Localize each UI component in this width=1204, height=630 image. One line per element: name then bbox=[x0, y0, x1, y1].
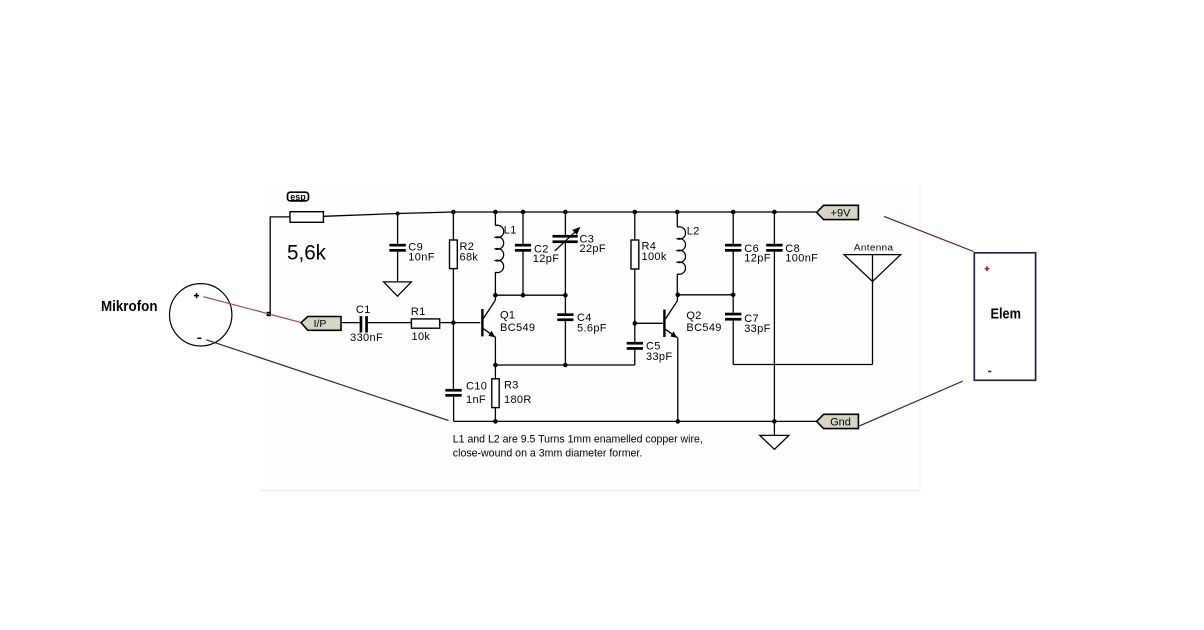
junction Q1 collector node at C2 bbox=[521, 293, 526, 298]
wire: L1 bottom to tank node row bbox=[494, 272, 496, 295]
svg-text:330nF: 330nF bbox=[350, 332, 383, 344]
wire: C4 column top bbox=[564, 295, 566, 313]
junction ground rail at Q2 emitter bbox=[676, 419, 681, 424]
svg-text:12pF: 12pF bbox=[744, 253, 770, 265]
wire: antenna down lead bbox=[872, 255, 874, 365]
junction Q2 collector node at C6/C7 bbox=[731, 293, 736, 298]
svg-text:L1 and L2 are 9.5 Turns 1mm en: L1 and L2 are 9.5 Turns 1mm enamelled co… bbox=[453, 433, 703, 445]
svg-text:L1: L1 bbox=[504, 225, 517, 237]
inductor L2 bbox=[677, 227, 685, 274]
capacitor C3 22pF variable bbox=[553, 235, 578, 243]
wire: C6 column top bbox=[732, 212, 734, 244]
junction on +9V rail at C8 bbox=[772, 210, 777, 215]
svg-text:12pF: 12pF bbox=[533, 253, 559, 265]
svg-text:68k: 68k bbox=[460, 252, 479, 264]
wire: stage 2 node row bbox=[678, 294, 733, 296]
wire: R2 column rail to box bbox=[452, 212, 454, 240]
svg-text:33pF: 33pF bbox=[646, 351, 672, 363]
battery Elem bbox=[974, 253, 1035, 380]
wire: R3 bottom to rail bbox=[494, 408, 496, 422]
wire: C6 bottom to node row bbox=[732, 252, 734, 295]
svg-text:Q1: Q1 bbox=[500, 310, 515, 322]
wire: L2 bottom to node row bbox=[676, 274, 678, 295]
wire: C8 column top bbox=[773, 212, 775, 244]
capacitor C10 1nF bbox=[445, 389, 461, 397]
microphone body bbox=[170, 284, 232, 346]
junction on +9V rail at L1 bbox=[493, 210, 498, 215]
svg-text:close-wound on a 3mm diameter: close-wound on a 3mm diameter former. bbox=[453, 447, 643, 459]
wire: C5 bottom to emitter row bbox=[634, 348, 636, 365]
capacitor C7 33pF bbox=[725, 313, 741, 321]
junction on +9V rail at R2 bbox=[451, 210, 456, 215]
wire: L2 column top bbox=[676, 212, 678, 227]
wire: R4 box to Q2 base node and C5 bbox=[634, 269, 636, 342]
wire: C10 bottom to ground rail bbox=[453, 397, 455, 422]
transistor Q1 BC549 bbox=[481, 295, 495, 365]
wire: tank node row stage 1 bbox=[495, 294, 565, 296]
svg-text:10k: 10k bbox=[412, 331, 431, 343]
wire: R3 column bbox=[494, 365, 496, 379]
capacitor C9 10nF bbox=[389, 244, 405, 252]
wire: mic bias vertical from 5,6k resistor down to input node bbox=[270, 217, 290, 314]
wire: C9 stem from rail bbox=[397, 214, 399, 244]
inductor L1 bbox=[495, 225, 503, 272]
junction Q1 base node bbox=[451, 320, 456, 325]
wire: I/P tag to C1 bbox=[341, 322, 360, 324]
junction ground rail at R3 bbox=[493, 419, 498, 424]
wire: R2 box to base node, down to C10 bbox=[452, 269, 454, 389]
junction emitter row at C4 bbox=[563, 363, 568, 368]
wire: antenna row bbox=[733, 364, 872, 366]
wire: Q2 base bbox=[635, 322, 663, 324]
blue wire: mic to ground rail bbox=[206, 340, 448, 421]
capacitor C2 12pF bbox=[515, 244, 531, 252]
wire: C3 column top bbox=[564, 212, 566, 235]
junction on +9V rail at C3 bbox=[563, 210, 568, 215]
capacitor C1 330nF (vertical plates) bbox=[360, 316, 368, 332]
transistor Q2 BC549 bbox=[663, 295, 678, 422]
red wire: +9V to battery plus bbox=[884, 216, 974, 251]
ground symbol below rail bbox=[760, 435, 789, 449]
junction on +9V rail at R4 bbox=[633, 210, 638, 215]
junction Q2 collector node at L2 bbox=[676, 293, 681, 298]
capacitor C5 33pF bbox=[627, 342, 643, 350]
trimmer arrow of C3 bbox=[555, 228, 580, 251]
tag +9V bbox=[817, 205, 859, 219]
note text bbox=[453, 433, 703, 459]
svg-text:Gnd: Gnd bbox=[830, 417, 851, 429]
wire: C7 column top bbox=[732, 295, 734, 313]
node: mic input junction bbox=[267, 312, 271, 316]
scan background tint bbox=[261, 185, 920, 491]
junction Q1 collector node at L1 bbox=[493, 293, 498, 298]
wire: R1 to base node bbox=[440, 322, 454, 324]
svg-text:180R: 180R bbox=[504, 394, 532, 406]
svg-text:1nF: 1nF bbox=[466, 394, 486, 406]
svg-text:L2: L2 bbox=[687, 226, 700, 238]
svg-text:5,6k: 5,6k bbox=[287, 242, 326, 265]
wire: L1 column top bbox=[494, 212, 496, 226]
junction on +9V rail at L2 bbox=[675, 210, 680, 215]
svg-text:Elem: Elem bbox=[991, 307, 1022, 323]
svg-text:100k: 100k bbox=[642, 251, 667, 263]
wire: C9 to ground symbol bbox=[397, 252, 399, 282]
tag I/P bbox=[301, 317, 341, 331]
wire: top +9V rail bbox=[453, 211, 816, 213]
svg-text:100nF: 100nF bbox=[785, 253, 818, 265]
svg-text:C10: C10 bbox=[466, 381, 487, 393]
blue wire: Gnd to battery minus bbox=[859, 381, 963, 426]
svg-text:+9V: +9V bbox=[831, 208, 852, 220]
esp logo bbox=[288, 192, 309, 202]
mic plus bbox=[194, 293, 199, 298]
resistor R4 100k bbox=[631, 240, 639, 269]
junction on +9V rail at C2 bbox=[521, 210, 526, 215]
wire: bottom ground rail bbox=[454, 420, 817, 422]
junction Q1 collector node at C3/C4 bbox=[563, 293, 568, 298]
wire: C2 column bottom bbox=[522, 252, 524, 296]
svg-text:C1: C1 bbox=[356, 304, 371, 316]
wire: Q1 base bbox=[453, 322, 480, 324]
svg-text:R3: R3 bbox=[504, 379, 519, 391]
component labels bbox=[350, 225, 894, 406]
junction on +9V rail at C6 bbox=[731, 210, 736, 215]
capacitor C6 12pF bbox=[725, 244, 741, 252]
svg-text:I/P: I/P bbox=[314, 318, 327, 330]
wire: C3 column bottom bbox=[564, 243, 566, 295]
capacitor C8 100nF bbox=[766, 244, 782, 252]
svg-text:5.6pF: 5.6pF bbox=[577, 323, 607, 335]
wire: C4 bottom to emitter row bbox=[564, 321, 566, 365]
wire: R4 column rail to box bbox=[634, 212, 636, 240]
wire: ground stub below rail bbox=[773, 421, 775, 435]
svg-text:10nF: 10nF bbox=[408, 252, 434, 264]
resistor R1 10k bbox=[411, 319, 439, 328]
wire: C2 column top bbox=[522, 212, 524, 244]
wire: C7 bottom to antenna row bbox=[732, 321, 734, 365]
wire: C1 to R1 bbox=[368, 322, 412, 324]
junction Q1 emitter node at R3 bbox=[493, 363, 498, 368]
svg-text:Mikrofon: Mikrofon bbox=[101, 299, 158, 315]
wire: 5,6k resistor to +9V rail bbox=[323, 212, 453, 216]
svg-text:33pF: 33pF bbox=[744, 323, 770, 335]
svg-text:22pF: 22pF bbox=[580, 243, 606, 255]
wire: C8 bottom to ground rail bbox=[773, 252, 775, 422]
ground symbol under C9 bbox=[384, 282, 412, 296]
junction ground rail at C8/ground symbol bbox=[772, 419, 777, 424]
junction Q2 base node at R4/C5 bbox=[633, 321, 638, 326]
antenna symbol bbox=[844, 255, 901, 282]
capacitor C4 5.6pF bbox=[557, 313, 573, 321]
resistor R2 68k bbox=[450, 240, 458, 269]
mic minus bbox=[197, 338, 201, 340]
junction on +9V rail at C9 bbox=[396, 212, 400, 216]
tag Gnd bbox=[817, 414, 859, 428]
wire: emitter row bbox=[495, 364, 634, 366]
svg-text:BC549: BC549 bbox=[500, 322, 535, 334]
resistor R3 180R bbox=[492, 379, 499, 408]
svg-text:BC549: BC549 bbox=[686, 322, 721, 334]
red wire: mic to I/P node bbox=[203, 297, 300, 323]
svg-text:esp: esp bbox=[290, 192, 306, 202]
svg-text:Antenna: Antenna bbox=[854, 242, 894, 253]
svg-text:R1: R1 bbox=[411, 306, 426, 318]
resistor 5,6k (mic bias) bbox=[290, 212, 323, 223]
svg-text:Q2: Q2 bbox=[686, 310, 701, 322]
